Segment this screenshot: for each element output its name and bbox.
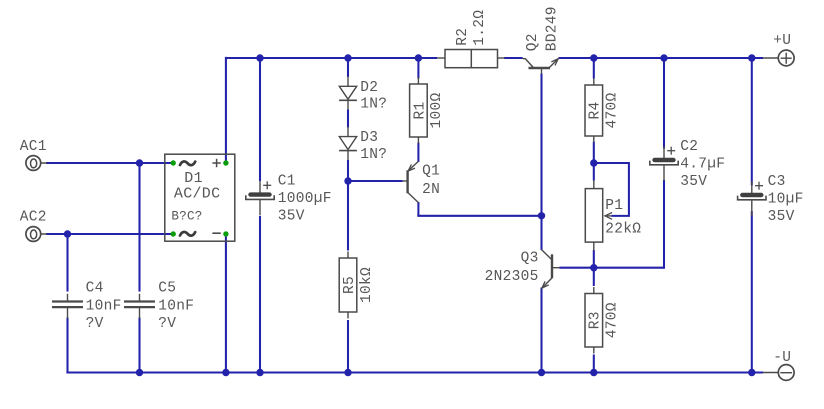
svg-text:35V: 35V: [768, 209, 795, 225]
svg-text:470Ω: 470Ω: [605, 92, 621, 128]
capacitor C4 10nF: [52, 280, 122, 332]
wire D1 minus pin to bottom rail: [225, 234, 227, 373]
wire D3 to R5 node: [347, 160, 349, 251]
transistor Q1 (PNP 2N...): [403, 161, 441, 202]
junction node D2 top: [344, 54, 351, 61]
junction node Q1 base / D3 / R5: [344, 177, 351, 184]
wire AC1 to D1: [46, 162, 173, 164]
terminal +U: [763, 33, 794, 66]
svg-text:AC/DC: AC/DC: [174, 186, 221, 203]
svg-text:35V: 35V: [680, 174, 707, 190]
junction node Q3 emitter bottom: [538, 369, 545, 376]
junction node AC2 branch: [64, 230, 71, 237]
svg-text:D1: D1: [184, 170, 203, 187]
junction node R4 top: [590, 54, 597, 61]
wire P1 wiper loop: [594, 163, 629, 216]
svg-text:D2: D2: [360, 80, 378, 96]
wire C2 bottom lead down to node: [663, 180, 665, 269]
wire Q1 collector down: [417, 202, 419, 216]
terminal -U: [763, 350, 794, 381]
svg-text:-U: -U: [773, 350, 791, 366]
svg-text:2N2305: 2N2305: [485, 269, 539, 285]
junction node AC1 branch: [136, 159, 143, 166]
wire vertical through C5 upper: [138, 163, 140, 292]
svg-text:+U: +U: [773, 33, 791, 49]
svg-text:10µF: 10µF: [768, 192, 804, 208]
wire R5 to bottom rail: [347, 320, 349, 373]
svg-text:Q1: Q1: [422, 163, 440, 179]
wire C2 top lead: [663, 58, 665, 149]
capacitor C3 10uF: [738, 174, 804, 225]
junction node R4/P1/wiper: [590, 159, 597, 166]
junction node R1 top: [415, 54, 422, 61]
wire C3 bottom lead: [751, 211, 753, 373]
svg-text:?V: ?V: [86, 316, 104, 332]
junction node C3 top: [748, 54, 755, 61]
potentiometer P1 22kohm: [585, 181, 641, 251]
wire R1 to Q1 emitter: [417, 143, 419, 163]
svg-text:C4: C4: [86, 280, 104, 296]
svg-text:22kΩ: 22kΩ: [605, 221, 641, 237]
svg-text:Q3: Q3: [521, 250, 539, 266]
svg-text:2N: 2N: [422, 182, 440, 198]
pin D1 minus: [223, 231, 228, 236]
wire bottom -U rail: [66, 371, 763, 373]
diode D2: [339, 76, 387, 112]
wire node to R3 top: [593, 268, 595, 286]
terminal AC2: [20, 210, 47, 242]
wire Q2 base vertical to Q3 collector: [540, 74, 542, 251]
junction node C1 bottom: [256, 369, 263, 376]
capacitor C2 4.7uF: [650, 139, 726, 190]
svg-text:4.7µF: 4.7µF: [680, 157, 725, 173]
junction node C3 bottom: [748, 369, 755, 376]
svg-text:Q2: Q2: [525, 33, 541, 51]
svg-text:C5: C5: [158, 280, 176, 296]
svg-text:D3: D3: [360, 130, 378, 146]
svg-text:35V: 35V: [278, 209, 305, 225]
svg-text:C3: C3: [768, 174, 786, 190]
wire C1 top lead: [259, 58, 261, 181]
wire P1 bottom to node: [593, 250, 595, 268]
svg-text:100Ω: 100Ω: [429, 92, 445, 128]
resistor R2 1.2ohm: [437, 10, 505, 68]
svg-text:R5: R5: [342, 276, 358, 294]
svg-text:1.2Ω: 1.2Ω: [472, 10, 488, 46]
svg-text:1N?: 1N?: [360, 147, 387, 163]
resistor R3 470ohm: [585, 287, 621, 354]
wire R4 bottom to P1 top: [593, 142, 595, 181]
wire AC2 to D1: [46, 233, 173, 235]
wire top rail to D2: [347, 58, 349, 77]
wire R3 to bottom rail: [593, 355, 595, 373]
svg-text:10nF: 10nF: [158, 298, 194, 314]
wire R4 top lead: [593, 58, 595, 79]
wire top +U rail left segment: [226, 57, 437, 59]
junction node C5 bottom: [136, 369, 143, 376]
svg-text:C1: C1: [278, 174, 296, 190]
pin D1 AC top: [171, 160, 176, 165]
wire vertical through C5 lower: [138, 318, 140, 373]
svg-text:R1: R1: [412, 101, 428, 119]
wire vertical through C4 upper: [66, 234, 68, 292]
svg-text:R4: R4: [588, 101, 604, 119]
junction node Q1 collector / Q2 base: [538, 212, 545, 219]
diode D3: [339, 127, 387, 163]
svg-text:R2: R2: [455, 28, 471, 46]
svg-text:AC1: AC1: [20, 139, 47, 155]
wire Q1 collector to Q2 base line: [417, 215, 541, 217]
svg-text:R3: R3: [588, 311, 604, 329]
junction node C1 top: [256, 54, 263, 61]
pin D1 AC bottom: [171, 231, 176, 236]
pin D1 plus: [223, 160, 228, 165]
svg-text:470Ω: 470Ω: [605, 302, 621, 338]
svg-text:1N?: 1N?: [360, 97, 387, 113]
wire Q1 base to node: [348, 180, 403, 182]
resistor R5 10kohm: [339, 252, 375, 319]
resistor R1 100ohm: [410, 78, 446, 144]
svg-text:AC2: AC2: [20, 210, 47, 226]
svg-text:1000µF: 1000µF: [278, 191, 332, 207]
wire vertical top rail to D1 plus pin: [225, 57, 227, 163]
rectifier D1: [165, 154, 235, 241]
svg-text:10kΩ: 10kΩ: [359, 267, 375, 303]
svg-text:10nF: 10nF: [86, 298, 122, 314]
junction node R3 bottom: [590, 369, 597, 376]
junction node D1 minus bottom: [222, 369, 229, 376]
svg-text:B?C?: B?C?: [171, 209, 202, 223]
terminal AC1: [20, 139, 47, 170]
wire Q3 base node horizontal: [560, 267, 665, 269]
transistor Q3 2N2305: [485, 250, 560, 289]
svg-text:BD249: BD249: [544, 6, 560, 51]
svg-text:P1: P1: [605, 198, 623, 214]
transistor Q2 BD249: [523, 6, 561, 74]
wire vertical through C4 lower: [66, 318, 68, 373]
junction node C2 top: [660, 54, 667, 61]
wire C3 top lead: [751, 58, 753, 186]
capacitor C5 10nF: [124, 280, 194, 332]
capacitor C1 1000uF: [246, 174, 332, 225]
wire R1 top lead: [417, 58, 419, 79]
wire top rail between R2 and Q2: [504, 57, 523, 59]
wire top rail Q2 emitter to +U: [559, 57, 764, 59]
svg-text:?V: ?V: [158, 316, 176, 332]
junction node R5 bottom: [344, 369, 351, 376]
svg-text:C2: C2: [680, 139, 698, 155]
wire Q3 emitter to bottom rail: [540, 288, 542, 373]
wire D2 to D3: [347, 110, 349, 128]
wire C1 bottom lead: [259, 216, 261, 373]
junction node P1/R3/Q3 base/C2: [590, 264, 597, 271]
resistor R4 470ohm: [585, 79, 621, 143]
